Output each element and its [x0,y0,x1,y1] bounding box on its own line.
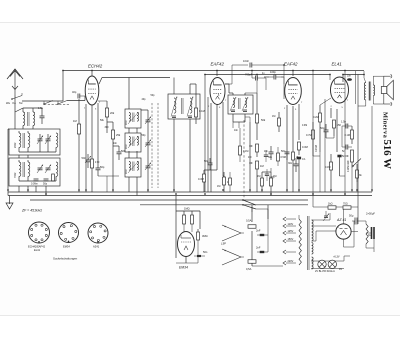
capacitor 100pF [264,70,284,84]
capacitor Ck3 [320,124,329,138]
tube EAF42 a [210,78,225,105]
svg-text:ECH42: ECH42 [88,64,103,69]
svg-text:110V: 110V [288,223,294,226]
label switch [6,101,23,105]
resistor Rem2 [191,211,194,232]
IFT1 slug a [171,97,177,117]
coil box 1 [9,129,60,155]
wire cap join [252,219,283,266]
capacitor Cem [194,250,208,257]
resistor Ra1 [198,170,206,192]
svg-text:50p: 50p [142,134,147,137]
resistor Rv3 [256,161,264,176]
svg-text:10n: 10n [234,129,239,132]
osc coil box C [125,158,141,177]
svg-text:ZF = 451kHz: ZF = 451kHz [21,209,42,213]
svg-text:2V BL.PR.SKALA: 2V BL.PR.SKALA [315,270,335,273]
wire avc [262,160,299,192]
slug arrow boxC [128,161,139,173]
pin numbers ECH42 [84,102,101,111]
pin numbers EAF42a [208,100,227,109]
pin numbers EL41 [331,100,350,109]
capacitor pad1 [31,179,39,186]
resistor Rdiode [239,128,249,162]
svg-text:50n: 50n [268,156,273,159]
svg-text:0,5A: 0,5A [246,219,252,223]
IFT1 slug b [187,97,193,117]
osc coil box A [125,109,141,128]
IFT2 cap a [231,110,235,112]
capacitor 2nF a [256,229,268,237]
output transformer secondary [373,85,374,96]
band switch S2 [43,101,53,105]
socket EM34 [59,223,79,243]
svg-text:1MΩ: 1MΩ [184,207,190,211]
capacitor 2nF b [256,246,268,254]
label AZ41 [336,218,346,222]
fuse F2 [246,260,256,271]
label ZF [21,209,42,213]
label r2 [218,95,220,97]
label Minerva [382,112,389,139]
IF transformer I box [168,94,200,119]
wire b+ rail [313,206,358,208]
svg-text:1M: 1M [272,115,275,118]
dial lamp 1 [318,260,326,268]
svg-text:516 W: 516 W [381,140,393,170]
svg-text:20k: 20k [110,111,115,115]
svg-text:30n: 30n [288,162,293,165]
label Sockelschaltungen [53,257,78,261]
svg-text:Sockelschaltungen: Sockelschaltungen [53,257,78,261]
tone switch [352,159,361,167]
resistor Rk2 [292,150,300,168]
svg-text:0,5A: 0,5A [246,267,252,271]
variable capacitor CV3 [145,160,151,174]
capacitor Cs2 [297,157,306,166]
resistor Ravc1 [257,172,264,192]
IFT2 coil a [233,98,235,108]
capacitor Cx1 [264,146,274,160]
svg-text:220V: 220V [288,260,294,263]
svg-text:100p: 100p [270,70,276,74]
IFT1 coil a [174,98,176,113]
output transformer primary [364,71,366,100]
trimmer C t4 [45,165,51,174]
wire EAF42b top [292,71,294,77]
svg-text:10n: 10n [113,142,118,145]
band switch Wa [11,93,22,100]
svg-text:50p: 50p [43,183,48,186]
capacitor Cnfb [337,154,345,166]
svg-text:2002: 2002 [14,142,17,148]
tube ECH42 [85,76,99,105]
wire ECH42 pins [86,103,98,192]
svg-text:0.7M: 0.7M [306,133,312,137]
potentiometer arrow 2 [249,162,253,164]
resistor Rf1 [328,203,336,210]
capacitor pad2 [43,179,49,186]
svg-text:4V: 4V [339,268,342,271]
ground [6,196,13,210]
resistor Ra3 [217,172,232,192]
band switch S3 [57,101,67,105]
svg-text:0.3M: 0.3M [302,125,307,127]
svg-text:0.3M: 0.3M [198,177,204,181]
transformer core [307,216,309,270]
tube EM34 [178,232,195,257]
svg-text:EM34: EM34 [179,266,188,270]
potentiometer arrow 1 [249,145,253,147]
capacitor Ct2 [342,145,352,154]
coil L1 [23,108,25,129]
wire IFT1 out [190,84,196,192]
wire gang [141,110,148,192]
wires box2 [19,160,56,181]
pickup terminal upper [222,225,241,241]
wires box1 [19,131,56,152]
IFT1 cap b [188,116,192,118]
svg-text:50p: 50p [204,159,209,163]
label socket2 [63,245,70,249]
svg-text:50n: 50n [281,149,286,153]
label 6.3V [333,256,340,259]
svg-text:50μ: 50μ [349,214,354,218]
dial lamp 2 [328,260,336,268]
capacitor Ct1 [341,120,352,129]
label 1M pot [248,156,251,159]
svg-text:7002: 7002 [14,172,17,178]
svg-text:50p: 50p [151,94,156,97]
transformer primary [299,219,301,265]
svg-text:50m: 50m [320,126,325,130]
svg-text:100p: 100p [269,176,275,179]
transformer secondary HT [312,220,314,241]
wire antenna down [14,95,16,112]
capacitor Ck1 [82,154,92,168]
capacitor 700pF [245,71,266,91]
IFT2 slug b [242,97,248,111]
coil boxC a [126,162,130,175]
tuning gang dashed 2 [157,103,159,188]
label lamps [315,268,342,273]
wire mains L1 [251,205,253,266]
svg-text:2nF: 2nF [256,229,261,233]
coil boxC b [137,162,138,171]
svg-text:≈6,3V: ≈6,3V [333,256,340,259]
svg-text:50n: 50n [82,156,87,160]
coil L2 [33,108,35,129]
coil L4 [28,133,30,147]
label socket1 [28,245,46,253]
tube EL41 [331,77,349,103]
wire filter [360,221,374,252]
coil boxA b [137,113,138,122]
svg-text:25k: 25k [116,133,121,137]
coil L6 [14,162,21,178]
pin numbers EAF42b [284,102,303,111]
wire cath links [204,170,224,177]
resistor Rem1 [183,211,186,232]
wire screen rail [205,74,330,76]
coil L3 [14,133,21,148]
svg-text:1kΩ: 1kΩ [328,203,333,206]
svg-text:EAF42: EAF42 [284,62,298,67]
antenna [7,69,23,95]
wire EL41 screen [329,75,331,81]
svg-text:50p: 50p [100,165,105,169]
svg-text:1M: 1M [217,185,220,188]
svg-text:0.15M: 0.15M [315,145,318,152]
svg-text:170: 170 [95,160,100,164]
svg-text:1.5n: 1.5n [341,120,347,124]
potentiometer tone [345,150,354,168]
resistor box2 [52,174,55,181]
svg-text:150: 150 [337,123,342,127]
resistor Rk3 [333,120,342,136]
svg-text:EL41: EL41 [332,62,343,67]
trimmer C t2 [45,136,51,145]
pickup terminal lower [222,249,241,265]
svg-text:50n: 50n [203,250,208,254]
fuse F1 [246,219,256,229]
svg-text:0.09m: 0.09m [31,183,38,186]
capacitor C elko2 [366,212,375,240]
capacitor Cd1 [264,150,273,162]
capacitor Ck2 [281,149,290,160]
svg-text:150V: 150V [288,238,294,241]
resistor Ra2 [223,172,231,192]
capacitor ant [38,106,45,124]
wire switch to grid [22,101,63,104]
svg-text:0.5M: 0.5M [281,156,286,159]
svg-text:4125/4119: 4125/4119 [347,160,350,172]
resistor Rg1 [73,99,81,192]
tube EAF42 b [285,78,302,105]
wire x372 return [371,106,373,192]
core boxA [133,113,134,123]
capacitor blob anode [347,76,352,81]
resistor Rs2 [298,142,308,155]
resistor Rnfb [325,154,333,178]
resistor Rg3 [306,122,315,148]
svg-text:3MΩ: 3MΩ [202,234,208,238]
resistor Rt1 [345,126,354,144]
svg-text:2×50μF: 2×50μF [366,212,375,216]
resistor RIF1 [194,84,204,124]
label 40pF gang [142,98,147,101]
label 0.15M [315,145,318,152]
trimmer C t1 [37,136,43,145]
svg-text:10n: 10n [264,150,269,153]
IFT2 coil b [245,98,247,108]
wire EL41 top [343,75,364,83]
transformer secondary heater [312,243,314,270]
IFT1 core [182,98,184,114]
resistor Rem3 [197,229,208,246]
mains switch [242,199,268,222]
wire heater bus 1 [30,199,308,201]
variable capacitor CV1 [145,114,151,128]
resistor Rk1 [90,159,99,192]
gang dashed horiz [44,104,70,106]
grid capacitor 40pF [72,90,85,99]
label r1 [302,125,307,127]
resistor Rf2 [343,203,351,210]
svg-text:Tal: Tal [19,101,23,105]
svg-text:0.1: 0.1 [302,157,306,161]
label osc cluster1 [100,119,105,122]
variable capacitor CV2 [145,137,151,151]
svg-text:0.1M: 0.1M [325,166,330,169]
svg-text:EM34: EM34 [63,245,70,249]
wire transformer top [299,211,330,221]
svg-text:Wa: Wa [6,101,10,105]
speaker [381,74,393,106]
wire pickup [241,233,244,257]
socket ECH42 EAF42 EL41 [29,222,50,243]
wire heater lamps [311,261,344,269]
wire EL41 pins [325,99,337,192]
svg-text:Minerva: Minerva [382,112,389,139]
label 4125 [347,160,350,172]
capacitor Cs1 [204,158,213,170]
resistor Rosc [105,101,114,126]
capacitor Cpad [117,146,126,160]
wire main bus 2 [8,195,372,197]
svg-text:EL41: EL41 [34,248,41,252]
rectifier AZ41 [336,217,351,239]
tuning gang dashed 1 [151,103,153,188]
coil boxB a [126,137,130,150]
IFT2 core [239,98,241,109]
coil L8 [56,162,58,176]
label LSP [221,242,226,246]
wires osc boxes [129,78,137,196]
wire ECH42 plate rail [102,77,170,79]
wire heater bus 2 [140,204,308,206]
label EAF42 b [284,62,298,67]
capacitor Cd2 [265,169,275,181]
wire vol bottom [233,117,257,192]
resistor Rv2 [256,144,259,157]
label osc cluster2 [105,126,110,129]
trimmer C t3 [37,165,43,174]
resistor Rosc2 [111,122,120,148]
wire tone [342,126,357,192]
label 50pF gang [151,94,156,97]
IFT1 coil b [190,98,192,113]
label socket3 [93,245,100,249]
label 4n [262,73,265,75]
osc coil box B [125,133,141,152]
svg-text:Ka: Ka [13,101,17,105]
wire ECH42 plate [99,78,102,85]
coil box 2 [9,158,60,186]
label EL41 [332,62,343,67]
voltage selector taps [283,217,296,265]
wire mains L2 [267,205,269,219]
capacitor 10nF [225,59,284,84]
wire osc links [98,101,119,192]
svg-text:50k: 50k [261,118,266,122]
label 1M EM34 [184,207,190,211]
wire heater out [344,192,350,261]
core L1 L2 [28,112,30,126]
svg-text:0.1M: 0.1M [199,109,205,113]
IFT1 cap a [172,116,176,118]
wire el41 misc [313,132,345,192]
socket AZ41 [88,223,108,243]
core box2 [23,162,24,177]
wire heater riser [344,71,346,196]
wire left edge [8,129,9,196]
wire to ECH42 grid [67,96,85,101]
output transformer core [369,82,371,101]
slug arrow boxB [128,136,139,148]
wire main bus 1 [8,191,372,193]
resistor Rx1 [272,112,281,132]
wire top anode rail [63,70,364,72]
svg-text:1M: 1M [73,119,77,123]
svg-text:2nF: 2nF [256,246,261,250]
resistor Ravc2 [270,172,277,196]
svg-text:700pF: 700pF [245,73,253,77]
wire box verticals [15,112,46,196]
wire x313 riser [312,71,314,208]
capacitor C elko1 [349,214,360,225]
wire IFT1 in [173,78,175,193]
wire volume line [249,122,251,192]
svg-text:0.2M: 0.2M [313,115,319,119]
core boxB [133,137,134,147]
svg-text:AZ41: AZ41 [93,245,100,249]
svg-text:125V: 125V [288,230,294,233]
label osc cluster3 [113,142,118,145]
svg-text:300: 300 [105,126,110,129]
wire speaker b+ [356,71,384,224]
svg-text:10nF: 10nF [243,59,249,63]
svg-text:40p: 40p [72,90,77,94]
volume switch link dashed [243,120,245,199]
label ECH42 [88,64,103,69]
label diode1 [234,129,239,132]
wire EM34 feed [176,196,200,259]
wire IFT2 [225,84,245,128]
wire grid riser [62,71,64,102]
IFT2 cap b [243,110,247,112]
wire ant section [15,108,42,112]
resistor Rd2 [277,147,286,166]
resistor Rt2 [356,164,363,182]
svg-text:ECH42/EAF42: ECH42/EAF42 [28,245,46,249]
wire ECH42 top [91,71,93,77]
core boxC [133,162,134,172]
label 500 gang [142,134,147,137]
core box1 [23,133,24,148]
svg-text:40p: 40p [142,98,147,101]
wire EAF42a pins [205,75,223,193]
coil boxA a [126,113,130,126]
wire EAF42b pins [284,84,299,192]
label EM34 [179,266,188,270]
IF transformer II box [228,95,253,114]
svg-text:AZ 41: AZ 41 [336,218,346,222]
field coil choke [366,221,371,248]
capacitor Cosc [96,160,105,176]
wire ht to az41 [312,221,354,247]
coil L5 [56,133,58,147]
